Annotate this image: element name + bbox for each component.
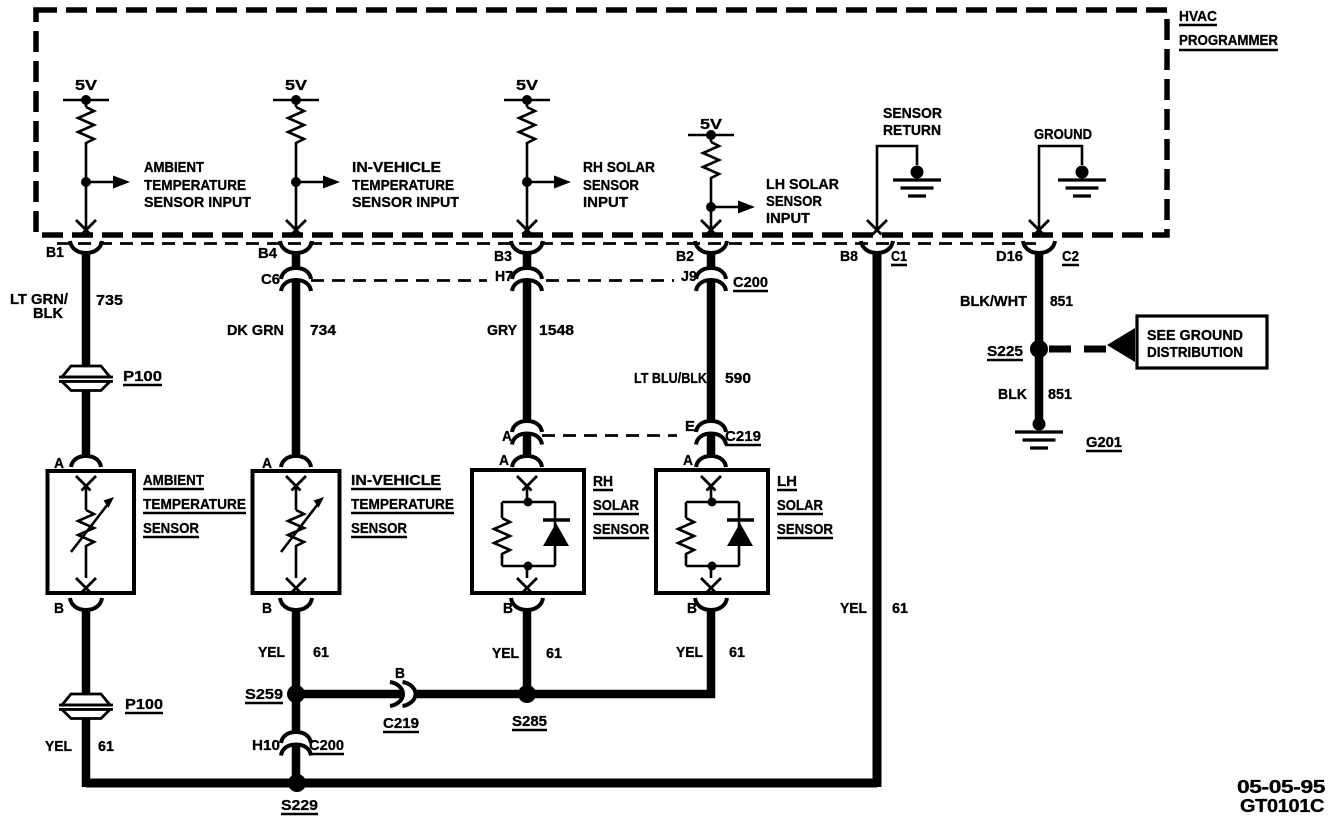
connector C219 pin A bbox=[502, 421, 542, 445]
wire sensor return bracket bbox=[877, 146, 917, 231]
svg-text:INPUT: INPUT bbox=[766, 210, 810, 227]
svg-text:S285: S285 bbox=[512, 713, 547, 730]
wire bottom bus 61 bbox=[86, 779, 877, 788]
5V supply 4 bbox=[688, 116, 734, 140]
wire ground bracket bbox=[1039, 146, 1082, 231]
svg-text:TEMPERATURE: TEMPERATURE bbox=[351, 496, 454, 513]
arrow RH solar input bbox=[527, 176, 571, 189]
LH solar internals bbox=[686, 487, 739, 578]
connector C6 bbox=[261, 268, 311, 291]
RH solar internals bbox=[502, 487, 555, 578]
HVAC programmer dashed box U1 bbox=[36, 10, 1167, 235]
wire 590 col4 bbox=[707, 282, 716, 422]
in-vehicle sensor exit arrow bbox=[286, 578, 306, 593]
ambient temperature sensor box bbox=[48, 471, 135, 593]
svg-text:C1: C1 bbox=[891, 248, 907, 265]
svg-text:SENSOR: SENSOR bbox=[883, 105, 942, 122]
svg-text:SENSOR: SENSOR bbox=[593, 521, 649, 538]
svg-text:TEMPERATURE: TEMPERATURE bbox=[144, 177, 246, 194]
connector P100 lower bbox=[59, 694, 163, 719]
svg-text:B3: B3 bbox=[494, 248, 512, 265]
svg-text:D16: D16 bbox=[996, 248, 1023, 265]
svg-text:C6: C6 bbox=[261, 271, 280, 288]
label YEL 61 col1 bbox=[45, 738, 114, 755]
wire B2 stub bbox=[707, 251, 716, 269]
programmer connector dashed line bbox=[57, 242, 1040, 245]
pin B ambient sensor bbox=[54, 598, 102, 617]
svg-text:734: 734 bbox=[310, 322, 337, 339]
svg-text:S259: S259 bbox=[245, 686, 283, 703]
connector H7 C200 bbox=[495, 268, 542, 291]
wire col1 to bus bbox=[82, 718, 91, 787]
label YEL 61 col5 bbox=[840, 600, 908, 617]
svg-text:E: E bbox=[685, 418, 695, 435]
wire col3 to sensor bbox=[523, 435, 532, 456]
svg-text:C219: C219 bbox=[383, 715, 419, 732]
svg-text:DK GRN: DK GRN bbox=[227, 322, 284, 339]
svg-text:PROGRAMMER: PROGRAMMER bbox=[1179, 32, 1278, 49]
pin A RH solar sensor bbox=[499, 452, 542, 469]
splice S259 bbox=[245, 685, 305, 703]
wire 61 col5 sensor return bbox=[873, 251, 882, 787]
svg-text:HVAC: HVAC bbox=[1179, 8, 1217, 25]
arrow in-vehicle input bbox=[296, 176, 340, 189]
svg-text:DISTRIBUTION: DISTRIBUTION bbox=[1147, 344, 1243, 361]
label in-vehicle input bbox=[352, 159, 459, 211]
svg-text:S229: S229 bbox=[281, 797, 318, 814]
svg-text:A: A bbox=[502, 428, 512, 445]
ambient sensor exit arrow bbox=[76, 578, 96, 593]
wire 734 col2 bbox=[292, 282, 301, 456]
label GRY 1548 bbox=[487, 322, 574, 339]
pin A ambient sensor bbox=[54, 455, 101, 472]
LH solar entry arrow bbox=[701, 476, 721, 491]
svg-text:SOLAR: SOLAR bbox=[593, 497, 639, 514]
HVAC PROGRAMMER label bbox=[1179, 8, 1278, 50]
svg-text:1548: 1548 bbox=[539, 322, 574, 339]
splice S225 bbox=[987, 340, 1048, 360]
svg-text:AMBIENT: AMBIENT bbox=[144, 159, 204, 176]
connector C219 dashed line A-E bbox=[542, 434, 677, 437]
svg-text:INPUT: INPUT bbox=[583, 194, 628, 211]
wire 5V col1 bbox=[85, 100, 88, 232]
pin B RH solar sensor bbox=[503, 598, 543, 617]
wire 61 col1 lower bbox=[82, 609, 91, 695]
pin A in-vehicle sensor bbox=[262, 455, 311, 472]
svg-text:G201: G201 bbox=[1086, 434, 1122, 451]
svg-text:5V: 5V bbox=[285, 77, 307, 94]
svg-text:5V: 5V bbox=[516, 77, 538, 94]
RH solar photodiode D1 bbox=[543, 520, 570, 546]
svg-text:C219: C219 bbox=[725, 428, 761, 445]
5V supply 1 bbox=[63, 77, 109, 105]
svg-text:GT0101C: GT0101C bbox=[1240, 796, 1324, 816]
pin B2 bbox=[676, 241, 727, 265]
svg-text:BLK: BLK bbox=[33, 305, 63, 322]
svg-text:B: B bbox=[54, 600, 64, 617]
wire 5V col3 bbox=[526, 100, 529, 232]
ground internal bbox=[1058, 166, 1106, 197]
connector J9 C200 bbox=[681, 268, 768, 291]
svg-text:C2: C2 bbox=[1062, 248, 1079, 265]
pin B1 bbox=[46, 241, 102, 261]
svg-text:B: B bbox=[503, 600, 513, 617]
svg-text:A: A bbox=[499, 452, 509, 469]
in-vehicle temperature sensor box bbox=[253, 471, 340, 593]
svg-text:BLK/WHT: BLK/WHT bbox=[960, 293, 1027, 310]
pin B LH solar sensor bbox=[687, 598, 727, 617]
wire 5V col2 bbox=[295, 100, 298, 232]
label DK GRN 734 bbox=[227, 322, 337, 339]
ground internal sensor return bbox=[893, 166, 941, 197]
svg-text:61: 61 bbox=[729, 644, 745, 661]
wire 61 col3 lower bbox=[523, 609, 532, 694]
svg-text:P100: P100 bbox=[123, 368, 162, 385]
node col1 input bbox=[81, 177, 91, 187]
wire S259 branch bbox=[296, 690, 403, 699]
RH solar sensor box bbox=[472, 470, 584, 593]
svg-text:RETURN: RETURN bbox=[883, 122, 941, 139]
svg-text:B8: B8 bbox=[840, 248, 858, 265]
splice S229 bbox=[281, 774, 318, 814]
svg-text:AMBIENT: AMBIENT bbox=[143, 472, 204, 489]
svg-text:SENSOR: SENSOR bbox=[583, 177, 639, 194]
svg-text:851: 851 bbox=[1048, 386, 1072, 403]
svg-text:A: A bbox=[683, 452, 693, 469]
svg-text:B: B bbox=[262, 600, 272, 617]
wire 735 col1 upper bbox=[82, 251, 91, 367]
arrow LH solar input bbox=[711, 201, 755, 214]
svg-text:TEMPERATURE: TEMPERATURE bbox=[143, 496, 246, 513]
arrow to pin B3 bbox=[517, 220, 537, 235]
svg-text:735: 735 bbox=[96, 292, 123, 309]
svg-text:YEL: YEL bbox=[258, 644, 285, 661]
LH solar sensor box bbox=[656, 470, 768, 593]
svg-text:TEMPERATURE: TEMPERATURE bbox=[352, 177, 454, 194]
svg-text:C200: C200 bbox=[309, 737, 344, 754]
wire C219 B to S285 bbox=[416, 690, 715, 699]
pin B4 bbox=[258, 241, 312, 262]
arrow to pin D16 bbox=[1029, 220, 1049, 235]
ambient sensor variable resistor bbox=[71, 487, 114, 578]
svg-text:BLK: BLK bbox=[998, 386, 1027, 403]
wire 61 col2 lower bbox=[292, 609, 301, 733]
harness connector dashed line C6-H7-J9 bbox=[311, 279, 674, 282]
node col3 input bbox=[522, 177, 532, 187]
svg-text:LT BLU/BLK: LT BLU/BLK bbox=[634, 370, 707, 387]
label ambient temperature sensor bbox=[143, 472, 246, 537]
label LH solar sensor bbox=[777, 473, 833, 538]
svg-text:LH: LH bbox=[777, 473, 797, 490]
svg-text:YEL: YEL bbox=[676, 644, 703, 661]
label LH solar input bbox=[766, 176, 839, 227]
svg-text:B2: B2 bbox=[676, 248, 694, 265]
in-vehicle sensor variable resistor bbox=[281, 487, 324, 578]
label BLK WHT 851 bbox=[960, 293, 1073, 310]
wire B3 stub bbox=[523, 251, 532, 269]
arrow to pin B1 bbox=[76, 220, 96, 235]
in-vehicle sensor entry arrow bbox=[286, 476, 306, 491]
svg-text:B: B bbox=[687, 600, 697, 617]
svg-text:IN-VEHICLE: IN-VEHICLE bbox=[352, 159, 441, 176]
svg-text:GROUND: GROUND bbox=[1034, 126, 1092, 143]
dashed stub to ground distribution bbox=[1049, 346, 1106, 353]
wire H10 to S229 bbox=[292, 746, 301, 787]
label in-vehicle temperature sensor bbox=[351, 472, 454, 537]
connector C219 pin B bbox=[383, 665, 419, 732]
label LT BLU 590 bbox=[634, 370, 751, 387]
pin B in-vehicle sensor bbox=[262, 598, 312, 617]
svg-text:61: 61 bbox=[98, 738, 114, 755]
svg-text:SEE GROUND: SEE GROUND bbox=[1147, 327, 1243, 344]
svg-text:5V: 5V bbox=[75, 77, 97, 94]
svg-text:61: 61 bbox=[892, 600, 908, 617]
svg-text:YEL: YEL bbox=[45, 738, 72, 755]
wire 61 col4 lower bbox=[707, 609, 716, 698]
svg-text:RH SOLAR: RH SOLAR bbox=[583, 159, 655, 176]
svg-text:B4: B4 bbox=[258, 245, 278, 262]
svg-text:YEL: YEL bbox=[840, 600, 867, 617]
svg-text:RH: RH bbox=[593, 473, 613, 490]
svg-text:61: 61 bbox=[313, 644, 329, 661]
RH solar entry arrow bbox=[517, 476, 537, 491]
svg-text:C200: C200 bbox=[733, 274, 768, 291]
connector C219 pin E bbox=[685, 418, 761, 445]
svg-text:SENSOR INPUT: SENSOR INPUT bbox=[144, 194, 251, 211]
ambient sensor entry arrow bbox=[76, 476, 96, 491]
LH solar resistor bbox=[678, 518, 694, 558]
label YEL 61 col2 bbox=[258, 644, 329, 661]
pin B3 bbox=[494, 241, 543, 265]
svg-text:B1: B1 bbox=[46, 244, 64, 261]
pin B8 C1 bbox=[840, 241, 907, 265]
label BLK 851 bbox=[998, 386, 1072, 403]
label YEL 61 col3 bbox=[492, 645, 562, 662]
wire 1548 col3 bbox=[523, 282, 532, 422]
svg-text:SENSOR: SENSOR bbox=[766, 193, 822, 210]
pin A LH solar sensor bbox=[683, 452, 726, 469]
svg-text:61: 61 bbox=[546, 645, 562, 662]
box see ground distribution bbox=[1137, 316, 1267, 368]
arrow ambient input bbox=[86, 176, 130, 189]
svg-text:J9: J9 bbox=[681, 268, 697, 285]
wire col4 to sensor bbox=[707, 435, 716, 456]
wire B4 stub bbox=[292, 251, 301, 269]
svg-text:P100: P100 bbox=[125, 696, 163, 713]
5V supply 3 bbox=[504, 77, 550, 105]
svg-text:YEL: YEL bbox=[492, 645, 519, 662]
LH solar exit arrow bbox=[701, 578, 721, 593]
label ambient input bbox=[144, 159, 251, 211]
label LT GRN 735 bbox=[10, 291, 123, 322]
ground G201 bbox=[1015, 418, 1122, 452]
svg-text:H7: H7 bbox=[495, 268, 513, 285]
svg-text:SENSOR: SENSOR bbox=[777, 521, 833, 538]
resistor R4 bbox=[703, 142, 719, 182]
resistor R1 bbox=[78, 107, 94, 147]
date and drawing code bbox=[1237, 777, 1325, 816]
svg-text:LH SOLAR: LH SOLAR bbox=[766, 176, 839, 193]
svg-text:B: B bbox=[395, 665, 405, 682]
svg-text:SENSOR: SENSOR bbox=[351, 520, 407, 537]
arrow see ground distribution bbox=[1107, 328, 1135, 362]
connector P100 upper bbox=[59, 366, 162, 391]
resistor R2 bbox=[288, 107, 304, 147]
resistor R3 bbox=[519, 107, 535, 147]
pin D16 C2 bbox=[996, 241, 1079, 265]
svg-text:05-05-95: 05-05-95 bbox=[1237, 777, 1325, 797]
label YEL 61 col4 bbox=[676, 644, 745, 661]
svg-text:851: 851 bbox=[1050, 293, 1073, 310]
svg-text:H10: H10 bbox=[252, 737, 280, 754]
arrow to pin B2 bbox=[701, 220, 721, 235]
LH solar photodiode D2 bbox=[727, 520, 754, 546]
svg-text:IN-VEHICLE: IN-VEHICLE bbox=[351, 472, 441, 489]
5V supply 2 bbox=[273, 77, 319, 105]
arrow to pin B8 bbox=[867, 220, 887, 235]
svg-text:SOLAR: SOLAR bbox=[777, 497, 823, 514]
svg-text:590: 590 bbox=[725, 370, 751, 387]
wire col1 to sensor bbox=[82, 390, 91, 456]
node col2 input bbox=[291, 177, 301, 187]
label RH solar input bbox=[583, 159, 655, 211]
svg-text:SENSOR: SENSOR bbox=[143, 520, 199, 537]
node col4 input bbox=[706, 202, 716, 212]
splice S285 bbox=[512, 685, 547, 730]
arrow to pin B4 bbox=[286, 220, 306, 235]
svg-text:SENSOR INPUT: SENSOR INPUT bbox=[352, 194, 459, 211]
wire 851 col6 upper bbox=[1035, 251, 1044, 420]
svg-text:S225: S225 bbox=[987, 343, 1023, 360]
connector H10 C200 bbox=[252, 732, 344, 756]
RH solar exit arrow bbox=[517, 578, 537, 593]
wire 5V col4 bbox=[710, 135, 713, 232]
RH solar resistor bbox=[494, 518, 510, 558]
label RH solar sensor bbox=[593, 473, 649, 538]
label sensor return bbox=[883, 105, 942, 139]
svg-text:GRY: GRY bbox=[487, 322, 517, 339]
